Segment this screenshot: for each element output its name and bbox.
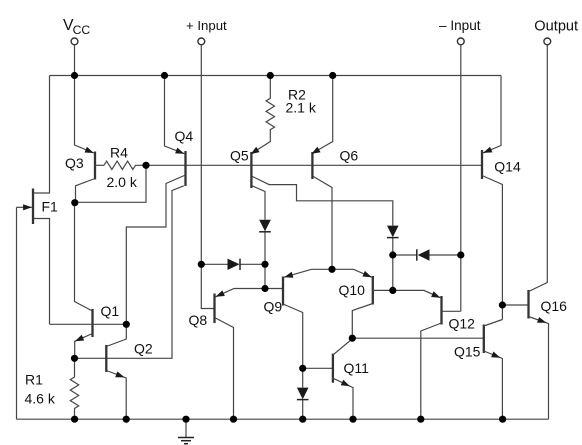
ground bar 3	[184, 443, 188, 445]
node Q16 base	[499, 301, 506, 308]
svg-text:Q12: Q12	[449, 316, 476, 332]
svg-text:2.0 k: 2.0 k	[107, 174, 138, 190]
wire minus input stem	[460, 45, 462, 311]
diode D1 triangle	[228, 259, 240, 270]
wire D3 row	[393, 254, 461, 256]
transistor Q15 bar	[483, 325, 485, 354]
wire diode D1 row	[201, 263, 265, 265]
diode D1 cathode bar	[239, 259, 241, 270]
svg-text:Q6: Q6	[340, 148, 359, 164]
svg-text:– Input: – Input	[439, 18, 481, 33]
node D2 cathode	[389, 251, 396, 258]
wire Q12 base to minus input	[442, 310, 461, 312]
wire + input to Q8 base	[201, 264, 214, 308]
svg-text:R4: R4	[110, 145, 128, 161]
wire Q3 emitter feed	[75, 76, 94, 154]
wire Q9 base	[265, 288, 283, 290]
wire top rail VCC	[50, 75, 502, 77]
wire bias line to bases	[146, 164, 482, 166]
resistor R4	[104, 161, 146, 169]
diode D5 cathode bar	[297, 399, 309, 401]
wire Q2 base line to Q4 collector B	[75, 186, 184, 358]
transistor Q2 bar	[105, 345, 107, 372]
terminal output	[544, 38, 551, 45]
wire Q4 emitter feed	[165, 76, 185, 154]
node minus input diode	[457, 251, 464, 258]
wire Q14 collector	[482, 176, 502, 320]
diode D2 triangle	[387, 226, 399, 238]
terminal minus input	[457, 38, 464, 45]
node Q1 base	[123, 321, 130, 328]
arrow F1 gate	[23, 204, 32, 210]
wire Q5 collector2 to D4	[251, 186, 265, 220]
wire Q2 collector	[106, 324, 126, 346]
wire node D1 down	[264, 264, 266, 288]
svg-text:Q4: Q4	[175, 128, 194, 144]
arrow Q15 emitter	[491, 352, 500, 358]
node Q3 collector	[71, 199, 78, 206]
arrow Q10 emitter	[362, 271, 371, 277]
wire Q4 collector A	[126, 175, 185, 324]
resistor R2 with feed	[251, 76, 275, 155]
arrow Q11 emitter	[341, 380, 350, 387]
wire Q6 emitter feed	[311, 76, 332, 154]
node Q10 base	[389, 287, 396, 294]
svg-text:Q15: Q15	[454, 344, 481, 360]
wire Q11 emitter	[333, 378, 353, 419]
svg-text:F1: F1	[42, 199, 59, 215]
svg-text:Q5: Q5	[230, 148, 249, 164]
wire + input stem	[200, 45, 202, 264]
node Q1 emitter R1	[71, 355, 78, 362]
wire Q10 base	[373, 289, 393, 291]
arrow Q4 emitter	[175, 148, 184, 154]
svg-text:+ Input: + Input	[186, 18, 227, 33]
arrow Q3 emitter	[85, 147, 94, 153]
wire Q11 collector	[333, 339, 352, 355]
wire diode D5 to rail	[302, 399, 304, 419]
resistor R1	[70, 358, 78, 419]
node Q11 base	[299, 365, 306, 372]
transistor F1	[32, 189, 34, 225]
transistor Q12 bar	[440, 296, 442, 325]
wire D4 to node	[264, 232, 266, 265]
svg-text:Q9: Q9	[264, 299, 283, 315]
svg-text:Q14: Q14	[494, 159, 521, 175]
svg-text:Q2: Q2	[134, 341, 153, 357]
svg-text:CC: CC	[73, 23, 91, 37]
wire F1 gate	[17, 206, 32, 208]
wire Q16 collector to output	[529, 45, 548, 292]
svg-text:Q3: Q3	[65, 155, 84, 171]
wire Q14 emitter feed	[483, 76, 501, 153]
wire F1 source	[34, 219, 50, 325]
diode D4 triangle	[259, 220, 271, 232]
transistor Q10 bar	[372, 276, 374, 305]
wire left rail drop to F1 drain	[34, 76, 50, 194]
wire Q15 base line	[352, 337, 484, 339]
transistor Q5 bar	[250, 152, 252, 188]
wire Q1 base line	[50, 323, 127, 325]
wire Q6 collector to tail node	[312, 176, 332, 269]
transistor Q11 bar	[332, 354, 334, 383]
wire Q12 collector	[421, 323, 442, 419]
transistor Q6 bar	[311, 152, 313, 179]
wire Q2 emitter	[106, 371, 126, 420]
transistor Q3 bar	[94, 152, 96, 180]
wire Q12 emitter	[393, 290, 441, 297]
junction dots top rail	[71, 72, 78, 79]
svg-text:Q8: Q8	[189, 312, 208, 328]
wire node vertical D2-D3	[392, 255, 394, 290]
terminal VCC	[71, 38, 78, 45]
wire Q3 collector	[76, 179, 96, 204]
wire Q9 emitter	[284, 269, 332, 277]
transistor Q8 bar	[213, 294, 215, 324]
wire Q5 collector1 to D2	[251, 176, 392, 226]
wire Q11 base	[303, 367, 333, 369]
diode D4 cathode bar	[259, 231, 271, 233]
wire Q9 collector	[283, 304, 303, 388]
svg-text:Q16: Q16	[541, 298, 568, 314]
arrow Q8 emitter	[216, 290, 225, 296]
ground stem	[185, 419, 187, 437]
node Q9 base	[261, 285, 268, 292]
transistor Q4 bar	[184, 151, 186, 186]
arrow Q6 emitter	[311, 147, 320, 154]
wire Q16 base	[502, 304, 528, 306]
wire bottom ground rail	[17, 418, 549, 420]
arrow Q16 emitter	[537, 317, 546, 323]
ground bar 1	[178, 437, 194, 439]
arrow Q1 emitter	[75, 335, 84, 341]
diode D2 cathode bar	[387, 237, 399, 239]
wire left border	[16, 207, 18, 419]
wire Q16 emitter	[529, 317, 549, 420]
wire Q15 collector	[484, 320, 503, 327]
svg-text:Q11: Q11	[344, 360, 370, 376]
arrow Q14 emitter	[483, 147, 492, 153]
wire Q15 emitter	[484, 351, 503, 419]
svg-text:2.1 k: 2.1 k	[286, 100, 317, 116]
wire Q3 collector down to Q1 collector	[75, 203, 92, 311]
arrow Q12 emitter	[431, 291, 440, 297]
arrow Q2 emitter	[115, 371, 124, 377]
node Q15 base line	[349, 335, 356, 342]
terminal plus input	[198, 38, 205, 45]
diode D3 cathode bar	[416, 249, 418, 260]
node tail	[328, 266, 335, 273]
node R4 junction	[142, 162, 149, 169]
node D1 cathode	[261, 261, 268, 268]
diode D5 triangle	[297, 388, 309, 400]
transistor Q14 bar	[481, 150, 483, 179]
ground bar 2	[181, 440, 191, 442]
arrow Q5 emitter	[251, 147, 260, 154]
arrow Q9 emitter	[284, 272, 293, 278]
svg-text:Output: Output	[534, 18, 578, 34]
wire Q8 collector	[215, 318, 234, 420]
diode D3 triangle	[418, 249, 430, 260]
wire Q3 base to R4	[95, 164, 104, 166]
svg-text:Q1: Q1	[101, 303, 120, 319]
wire Q8 emitter	[216, 289, 265, 297]
svg-text:R1: R1	[25, 372, 43, 388]
dots bottom rail	[71, 416, 78, 423]
wire VCC stem	[74, 45, 76, 76]
wire Q10 emitter	[332, 269, 372, 277]
transistor Q16 bar	[527, 290, 529, 319]
wire Q1 emitter	[75, 334, 93, 359]
svg-text:4.6 k: 4.6 k	[25, 391, 56, 407]
wire D2 to node	[392, 237, 394, 255]
transistor Q9 bar	[282, 277, 284, 306]
svg-text:Q10: Q10	[339, 282, 366, 298]
wire bias loop	[75, 165, 146, 202]
wire Q10 collector	[352, 304, 373, 339]
node plus input diode	[198, 261, 205, 268]
transistor Q1 bar	[91, 309, 93, 337]
